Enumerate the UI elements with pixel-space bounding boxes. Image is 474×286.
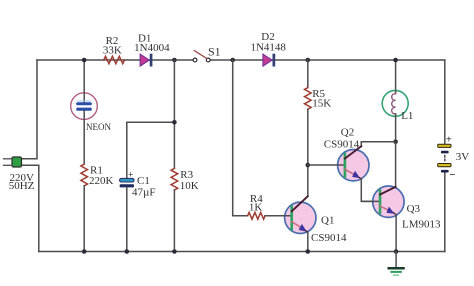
svg-text:−: − xyxy=(449,169,455,181)
wire left vertical bottom (plug neutral to bottom rail) xyxy=(21,165,39,251)
svg-text:CS9014: CS9014 xyxy=(311,232,347,244)
node Q2 base branch xyxy=(306,163,311,168)
neon branch top wire xyxy=(83,60,85,103)
neon electrode bar bottom xyxy=(76,108,92,111)
svg-text:R3: R3 xyxy=(180,169,193,181)
ground stem xyxy=(395,252,397,268)
wire neon to R1 xyxy=(83,111,85,165)
resistor R4 zigzag xyxy=(248,212,265,219)
transistor Q1 CS9014 xyxy=(265,196,316,233)
node L1 top xyxy=(393,58,398,63)
node L1/Q2/Q3 collector junction xyxy=(393,140,398,145)
node neon top rail xyxy=(82,58,87,63)
node Q1 emitter bottom rail xyxy=(306,249,311,254)
svg-text:Q1: Q1 xyxy=(321,214,334,226)
transistor Q3 LM9013 xyxy=(361,186,404,217)
wire junction to Q2 collector xyxy=(361,142,395,147)
svg-text:50HZ: 50HZ xyxy=(9,180,35,192)
wire top rail right segment xyxy=(210,59,445,61)
svg-text:3V: 3V xyxy=(456,151,470,163)
node after D1 xyxy=(172,58,177,63)
wire right vertical to battery + xyxy=(444,60,446,145)
neon lamp circle xyxy=(71,93,98,120)
wire top rail left segment xyxy=(37,59,193,61)
resistor R1 zigzag xyxy=(81,164,88,186)
ground bar 3 xyxy=(394,274,399,276)
node before R5 xyxy=(306,58,311,63)
diode D1 triangle xyxy=(140,54,149,66)
battery cell1 short plate xyxy=(441,151,449,154)
node S1 branch xyxy=(230,58,235,63)
transistor Q2 CS9014 xyxy=(308,146,369,181)
diode D2 triangle xyxy=(263,54,272,66)
node C1 branch junction xyxy=(172,120,177,125)
switch S1 lever xyxy=(194,51,207,59)
neon wire inside top xyxy=(83,93,85,103)
battery cell2 long plate xyxy=(438,164,451,167)
switch S1 right terminal xyxy=(206,58,210,62)
node neon bottom rail xyxy=(82,249,87,254)
capacitor C1 top plate xyxy=(120,178,134,182)
svg-text:Q3: Q3 xyxy=(407,203,421,215)
wire S1 node down to R4 xyxy=(233,60,248,216)
lamp L1 circle xyxy=(382,90,408,116)
resistor R3 zigzag xyxy=(171,168,178,190)
lamp L1 top wire xyxy=(395,60,397,92)
neon electrode bar top xyxy=(76,102,92,105)
wire left vertical top (plug live to top rail) xyxy=(21,60,37,159)
svg-text:NEON: NEON xyxy=(86,122,111,132)
svg-text:CS9014: CS9014 xyxy=(324,139,360,151)
svg-text:+: + xyxy=(128,170,133,180)
wire R3 to bottom rail xyxy=(173,190,175,252)
resistor R2 zigzag xyxy=(104,56,125,63)
svg-text:1N4004: 1N4004 xyxy=(134,42,170,54)
svg-text:1N4148: 1N4148 xyxy=(250,42,286,54)
wire Q2 emitter to Q3 base xyxy=(361,179,380,201)
neon electrode highlight xyxy=(77,100,91,102)
svg-text:Q2: Q2 xyxy=(341,126,354,138)
wire Q3 emitter to bottom rail xyxy=(395,215,397,252)
svg-text:10K: 10K xyxy=(180,180,199,192)
ground bar 1 xyxy=(389,267,404,270)
svg-text:C1: C1 xyxy=(137,175,150,187)
lamp L1 wire inside xyxy=(395,91,397,94)
resistor R5 zigzag xyxy=(305,88,312,110)
wire C1 branch xyxy=(127,122,175,178)
diode D1 cathode bar xyxy=(150,54,153,67)
node R3 bottom rail xyxy=(172,249,177,254)
switch S1 left terminal xyxy=(193,58,197,62)
wire Q1 emitter to bottom rail xyxy=(307,232,309,251)
wire C1 to bottom rail xyxy=(126,187,128,251)
plug body xyxy=(12,157,22,167)
capacitor C1 bottom plate xyxy=(120,184,134,187)
svg-text:47µF: 47µF xyxy=(132,187,155,199)
wire junction down to Q3 collector xyxy=(395,142,397,187)
wire bottom rail xyxy=(39,251,445,253)
svg-text:L1: L1 xyxy=(401,110,413,122)
plug prong bottom xyxy=(4,164,13,166)
plug prong top xyxy=(4,158,13,160)
battery cell2 short plate xyxy=(441,170,449,173)
svg-text:LM9013: LM9013 xyxy=(402,218,441,230)
svg-text:220K: 220K xyxy=(89,175,114,187)
svg-text:+: + xyxy=(446,135,452,146)
wire L1 bottom to junction xyxy=(395,114,397,142)
svg-text:33K: 33K xyxy=(103,44,122,56)
battery dotted link xyxy=(444,156,446,163)
wire R5 down to Q1 collector xyxy=(307,109,309,196)
node ground bottom rail xyxy=(394,249,399,254)
wire D1 node down to R3 xyxy=(173,60,175,168)
svg-text:1K: 1K xyxy=(249,201,263,213)
wire battery - to bottom rail xyxy=(444,172,446,251)
battery cell1 long plate xyxy=(438,144,451,147)
svg-text:15K: 15K xyxy=(312,98,331,110)
svg-text:S1: S1 xyxy=(208,45,221,59)
ground bar 2 xyxy=(391,271,401,273)
node C1 bottom rail xyxy=(125,249,130,254)
wire R1 to bottom rail xyxy=(83,186,85,252)
wire node to R5 xyxy=(307,60,309,88)
lamp L1 filament curls xyxy=(392,94,396,114)
diode D2 cathode bar xyxy=(273,54,276,67)
